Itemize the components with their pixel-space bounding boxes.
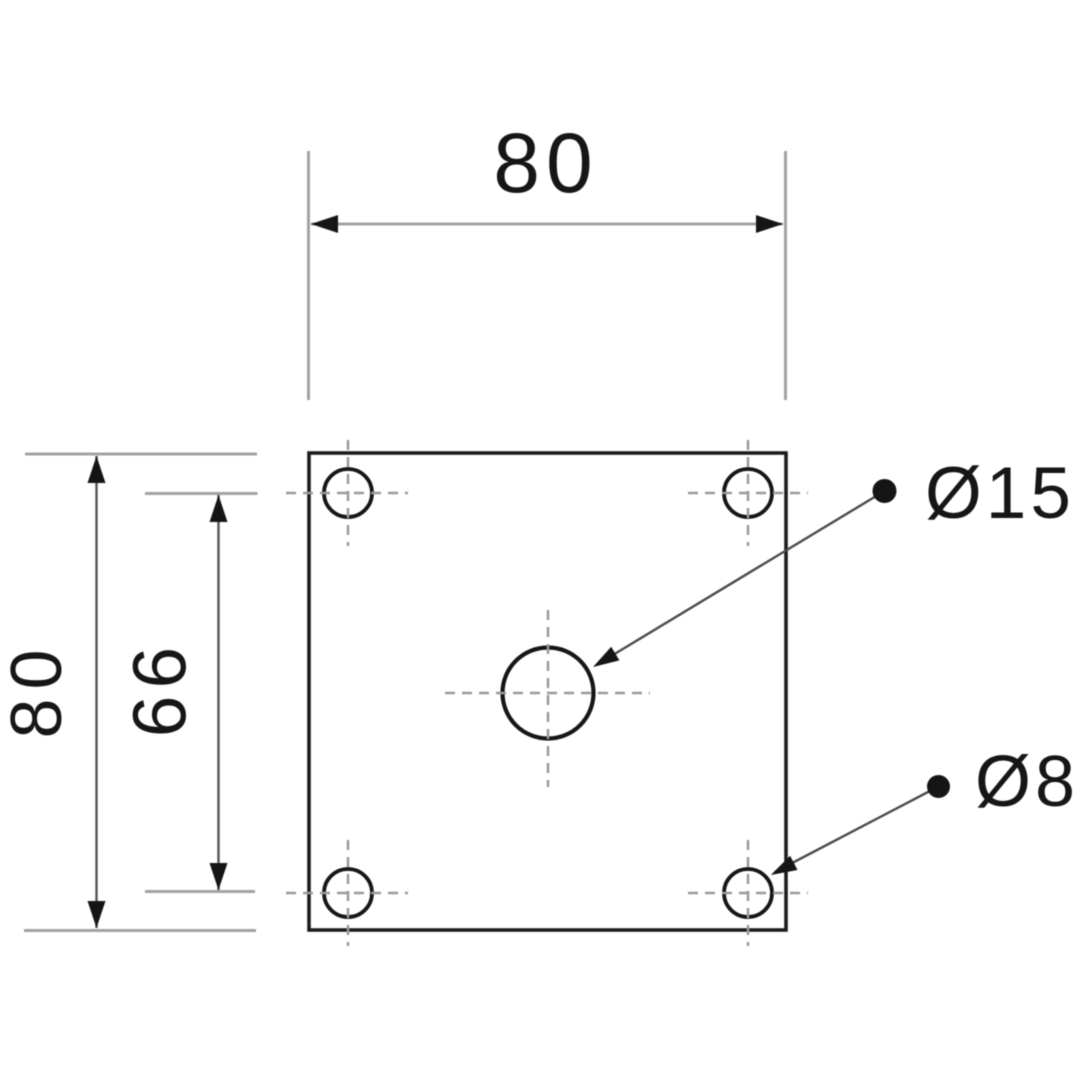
centerline vertical, hole bottom-right: [747, 840, 750, 946]
dimension 66: arrowhead up: [210, 495, 228, 522]
dimension 66: extension line top: [145, 492, 258, 495]
centerline vertical, hole center: [547, 610, 550, 787]
centerline vertical, hole bottom-left: [347, 840, 350, 946]
svg-text:66: 66: [118, 640, 202, 737]
dimension 66: arrowhead down: [210, 863, 228, 890]
svg-text:Ø15: Ø15: [925, 453, 1075, 534]
dimension 80 left: extension line top: [25, 453, 257, 456]
leader Ø8: dot: [927, 775, 950, 798]
centerline vertical, hole top-left: [347, 440, 350, 546]
dimension 80 top: extension line right: [784, 151, 787, 400]
dimension 80 left: arrowhead up: [88, 456, 106, 483]
dimension 80 top: value label: [493, 116, 598, 210]
plate outline (80x80 square): [309, 453, 786, 930]
dimension 80 left: extension line bottom: [24, 929, 256, 932]
leader Ø8: line: [775, 787, 939, 873]
dimension 80 top: arrowhead right: [756, 215, 783, 233]
leader Ø15: label: [925, 453, 1075, 534]
leader Ø15: dot: [873, 479, 897, 503]
leader Ø8: label: [975, 742, 1079, 822]
dimension 80 top: extension line left: [307, 151, 310, 400]
svg-text:80: 80: [493, 116, 598, 210]
dimension 66: dimension line: [217, 495, 219, 890]
dimension 80 top: arrowhead left: [311, 215, 338, 233]
svg-text:Ø8: Ø8: [975, 742, 1079, 822]
dimension 80 left: dimension line: [95, 456, 97, 928]
dimension 80 left: value label (rotated): [0, 640, 77, 738]
centerline horizontal, hole bottom-right: [688, 892, 808, 895]
centerline vertical, hole top-right: [747, 440, 750, 546]
centerline horizontal, hole bottom-left: [286, 892, 408, 895]
hole center (Ø15): [503, 648, 594, 739]
svg-text:80: 80: [0, 640, 77, 738]
dimension 66: extension line bottom: [145, 890, 255, 893]
dimension 66: value label (rotated): [118, 640, 202, 737]
hole top-left (Ø8): [324, 469, 372, 517]
hole bottom-right (Ø8): [724, 869, 772, 917]
centerline horizontal, hole center: [445, 692, 650, 695]
dimension 80 left: arrowhead down: [88, 901, 106, 928]
leader Ø15: line: [598, 491, 885, 664]
dimension 80 top: dimension line: [311, 223, 783, 226]
leader Ø8: arrowhead at bottom-right hole: [771, 856, 798, 875]
centerline horizontal, hole top-right: [688, 492, 808, 495]
hole top-right (Ø8): [724, 469, 772, 517]
hole bottom-left (Ø8): [324, 869, 372, 917]
leader Ø15: arrowhead at centre hole: [593, 647, 619, 667]
centerline horizontal, hole top-left: [286, 492, 408, 495]
